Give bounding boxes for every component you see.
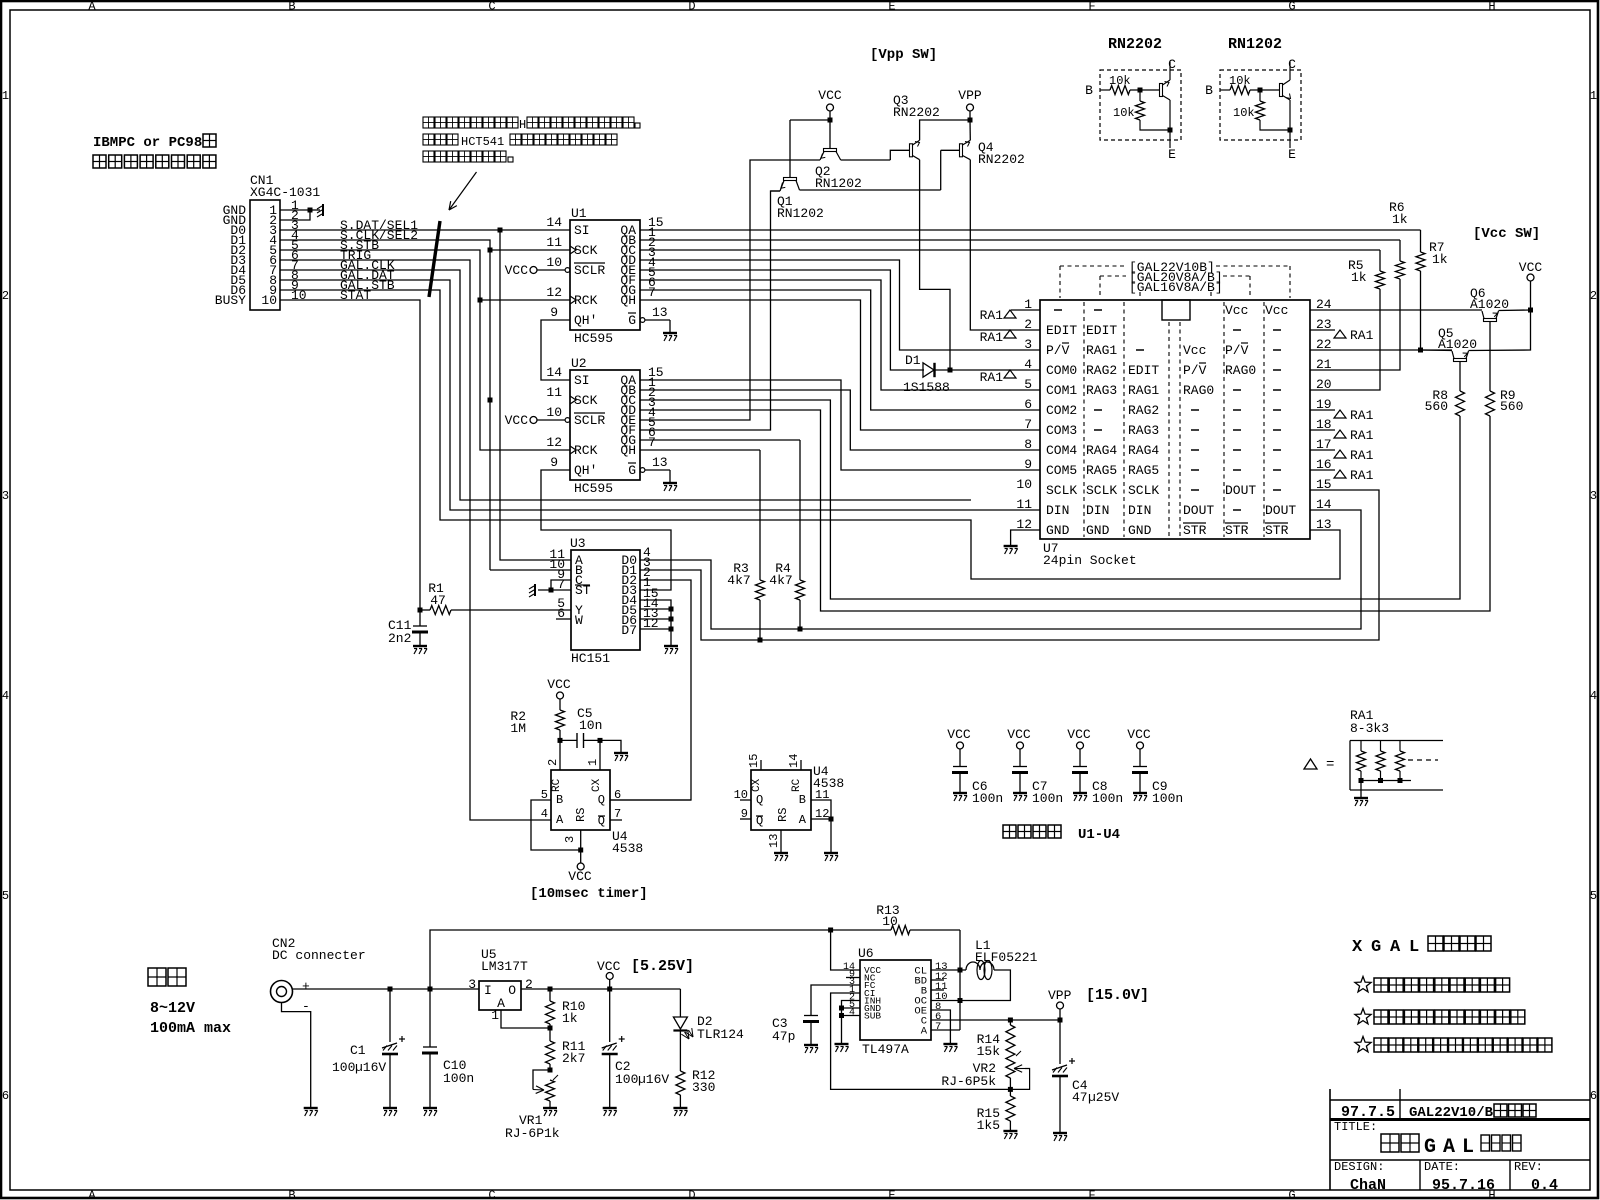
svg-text:P/V: P/V <box>1046 343 1070 358</box>
svg-text:Q: Q <box>756 793 763 807</box>
svg-text:2k7: 2k7 <box>562 1051 585 1066</box>
svg-text:95.7.16: 95.7.16 <box>1432 1177 1495 1194</box>
svg-text:H: H <box>1488 0 1495 14</box>
svg-text:HCT541: HCT541 <box>461 135 504 149</box>
svg-text:SUB: SUB <box>864 1011 881 1022</box>
svg-text:RCK: RCK <box>574 443 598 458</box>
svg-text:DOUT: DOUT <box>1225 483 1256 498</box>
svg-text:47: 47 <box>1072 1090 1088 1105</box>
wire STAT row <box>280 300 420 610</box>
svg-text:1k5: 1k5 <box>977 1118 1000 1133</box>
wire U2 QA to U7 pin9 <box>640 380 1040 470</box>
svg-text:14: 14 <box>546 365 562 380</box>
svg-text:A: A <box>556 813 564 827</box>
svg-text:EDIT: EDIT <box>1046 323 1077 338</box>
svg-text:2: 2 <box>2 289 9 303</box>
svg-text:9: 9 <box>550 455 558 470</box>
U6 BD stub <box>931 979 944 981</box>
svg-text:C: C <box>488 1189 495 1200</box>
svg-text:1: 1 <box>491 1008 499 1023</box>
U4a Qbar stub <box>610 819 622 821</box>
svg-text:3: 3 <box>468 977 476 992</box>
svg-text:560: 560 <box>1500 399 1523 414</box>
svg-text:15: 15 <box>1316 477 1332 492</box>
svg-text:SCLR: SCLR <box>574 263 605 278</box>
one-shot U4b 4538 (unused) <box>751 770 811 830</box>
svg-text:U2: U2 <box>571 356 587 371</box>
svg-text:560: 560 <box>1425 399 1448 414</box>
svg-text:RC: RC <box>791 778 803 792</box>
svg-text:+: + <box>302 979 310 994</box>
svg-text:A: A <box>88 0 96 14</box>
svg-text:A: A <box>88 1189 96 1200</box>
svg-text:EDIT: EDIT <box>1086 323 1117 338</box>
svg-text:DATE:: DATE: <box>1424 1160 1460 1174</box>
svg-text:B: B <box>1205 83 1213 98</box>
svg-text:SCLR: SCLR <box>574 413 605 428</box>
svg-text:[GAL16V8A/B]: [GAL16V8A/B] <box>1129 280 1223 295</box>
svg-text:µ25V: µ25V <box>1088 1090 1119 1105</box>
wire U1 QD to U7 pin3 <box>640 260 1040 350</box>
main 8-12V rail <box>293 988 480 990</box>
svg-text:4: 4 <box>1590 689 1597 703</box>
svg-text:COM2: COM2 <box>1046 403 1077 418</box>
U3 D2 to U4 Q <box>610 580 691 800</box>
U7 pin17 RA1 <box>1310 449 1335 451</box>
svg-text:G: G <box>628 463 636 478</box>
U6 FC to C3 <box>811 985 860 1015</box>
svg-text:7: 7 <box>648 435 656 450</box>
svg-text:P/V: P/V <box>1183 363 1207 378</box>
svg-text:DESIGN:: DESIGN: <box>1334 1160 1384 1174</box>
svg-text:7: 7 <box>648 285 656 300</box>
svg-text:G: G <box>1288 0 1295 14</box>
svg-text:RS: RS <box>574 808 588 822</box>
U6 B stub <box>931 989 944 991</box>
svg-text:VCC: VCC <box>568 869 592 884</box>
svg-text:RAG1: RAG1 <box>1128 383 1159 398</box>
svg-text:EDIT: EDIT <box>1128 363 1159 378</box>
U3 W stub <box>556 618 571 620</box>
svg-text:CX: CX <box>591 778 603 792</box>
CN2 minus to ground <box>282 1003 311 1108</box>
svg-text:VCC: VCC <box>547 677 571 692</box>
svg-text:X: X <box>1352 938 1363 957</box>
transistor <box>1160 84 1163 97</box>
svg-text:14: 14 <box>1316 497 1332 512</box>
svg-text:O: O <box>508 983 516 998</box>
svg-text:RN1202: RN1202 <box>815 176 862 191</box>
label GAL16V8A/B <box>1139 292 1141 298</box>
svg-text:4538: 4538 <box>612 841 643 856</box>
wire TRIG row <box>280 260 551 820</box>
svg-text:RAG0: RAG0 <box>1225 363 1256 378</box>
wire U2 QC to R8 row <box>640 400 1460 599</box>
svg-text:COM4: COM4 <box>1046 443 1077 458</box>
svg-text:B: B <box>799 793 806 807</box>
wire U2 QG through R4 <box>640 439 800 441</box>
svg-text:ChaN: ChaN <box>1350 1177 1386 1194</box>
svg-text:RA1: RA1 <box>980 370 1004 385</box>
svg-text:XG4C-1031: XG4C-1031 <box>250 185 320 200</box>
svg-text:5: 5 <box>1024 377 1032 392</box>
wire U1 QC to R5 <box>640 249 1380 251</box>
svg-text:4: 4 <box>1024 357 1032 372</box>
wire S.CLK row <box>280 240 490 570</box>
multiplexer U3 HC151 <box>571 550 640 650</box>
wire GAL.DAT row <box>280 280 1040 510</box>
U7 pin23 RA1 <box>1310 329 1335 331</box>
label GAL20V8A/B dashed box <box>1100 275 1126 277</box>
wire GAL.STB row <box>280 290 1340 579</box>
U7 pin20 to R5 <box>1310 289 1380 390</box>
svg-text:DOUT: DOUT <box>1265 503 1296 518</box>
svg-text:COM3: COM3 <box>1046 423 1077 438</box>
svg-text:[Vcc SW]: [Vcc SW] <box>1473 226 1540 242</box>
transistor <box>1280 84 1283 97</box>
svg-text:6: 6 <box>2 1089 9 1103</box>
svg-text:9: 9 <box>1024 457 1032 472</box>
svg-text:4k7: 4k7 <box>727 573 750 588</box>
svg-text:E: E <box>1168 147 1176 162</box>
U6 pin14 VCC from R13 rail <box>831 930 860 970</box>
svg-text:µ16V: µ16V <box>638 1072 669 1087</box>
svg-text:G: G <box>1424 1136 1436 1159</box>
svg-text:F: F <box>1088 1189 1095 1200</box>
G enable pin to ground <box>640 318 645 323</box>
svg-text:5: 5 <box>2 889 9 903</box>
wire U2 QD to R9 row <box>640 410 1490 611</box>
U7 pin function table <box>1054 309 1062 311</box>
svg-text:SCLK: SCLK <box>1128 483 1159 498</box>
wire U1 QB to R6 <box>640 239 1400 241</box>
bullet 2 <box>1355 1009 1371 1024</box>
wire U1 QG to U7 pin6 <box>640 290 1040 410</box>
svg-text:VCC: VCC <box>505 413 529 428</box>
svg-text:10: 10 <box>1016 477 1032 492</box>
svg-text:2: 2 <box>1024 317 1032 332</box>
svg-text:D: D <box>688 1189 695 1200</box>
svg-text:RA1: RA1 <box>980 330 1004 345</box>
U4a Q output to U3 D2 <box>610 799 691 801</box>
svg-text:SCLK: SCLK <box>1046 483 1077 498</box>
svg-text:3: 3 <box>1590 489 1597 503</box>
svg-text:RAG5: RAG5 <box>1086 463 1117 478</box>
U3 Y from R1 <box>451 609 571 611</box>
svg-text:SI: SI <box>574 223 590 238</box>
svg-text:VCC: VCC <box>597 959 621 974</box>
svg-text:1S1588: 1S1588 <box>903 380 950 395</box>
U6 OE to ground <box>931 1010 950 1043</box>
svg-text:2n2: 2n2 <box>388 631 411 646</box>
svg-text:QH: QH <box>620 443 636 458</box>
wire U2 QH through R3 <box>640 449 760 451</box>
svg-text:COM1: COM1 <box>1046 383 1077 398</box>
annotation text HCT541 note <box>423 117 434 128</box>
svg-text:U1-U4: U1-U4 <box>1078 827 1120 843</box>
svg-text:RAG4: RAG4 <box>1086 443 1117 458</box>
Q6 collector to R9 <box>1489 322 1491 392</box>
U7 pin18 RA1 <box>1310 429 1335 431</box>
wire U2 QE to Q2 <box>640 160 820 420</box>
svg-text:RAG3: RAG3 <box>1128 423 1159 438</box>
svg-text:RAG1: RAG1 <box>1086 343 1117 358</box>
svg-text:6: 6 <box>1024 397 1032 412</box>
caption bypass caps U1-U4 <box>1003 825 1016 838</box>
U6 INH/GND/SUB to ground <box>842 1001 861 1044</box>
wire U2 QF to Q1 <box>640 191 780 430</box>
svg-text:10k: 10k <box>1113 106 1135 120</box>
svg-text:RA1: RA1 <box>1350 448 1374 463</box>
svg-text:RAG5: RAG5 <box>1128 463 1159 478</box>
svg-text:U1: U1 <box>571 206 587 221</box>
svg-text:D: D <box>688 0 695 14</box>
svg-text:B: B <box>288 1189 295 1200</box>
svg-text:GAL22V10/B: GAL22V10/B <box>1409 1105 1494 1121</box>
bus slash marker <box>429 221 440 297</box>
shift register U2 HC595 <box>570 370 640 480</box>
svg-text:RN2202: RN2202 <box>893 105 940 120</box>
svg-text:0.4: 0.4 <box>1531 1177 1558 1194</box>
svg-text:1k: 1k <box>1351 270 1367 285</box>
svg-text:TL497A: TL497A <box>862 1042 909 1057</box>
caption power supply <box>148 968 166 986</box>
svg-text:L: L <box>1462 1136 1474 1159</box>
svg-text:GND: GND <box>1128 523 1152 538</box>
svg-text:U6: U6 <box>858 946 874 961</box>
svg-text:DC connecter: DC connecter <box>272 948 366 963</box>
svg-text:RN2202: RN2202 <box>1108 36 1162 53</box>
svg-text:100n: 100n <box>1092 791 1123 806</box>
svg-text:B: B <box>556 793 563 807</box>
svg-text:5: 5 <box>1590 889 1597 903</box>
svg-text:µ16V: µ16V <box>355 1060 386 1075</box>
svg-text:RJ-6P1k: RJ-6P1k <box>505 1126 560 1141</box>
Q5 collector to R8 <box>1459 362 1461 392</box>
svg-text:14: 14 <box>546 215 562 230</box>
svg-text:L: L <box>1409 938 1419 957</box>
svg-text:W: W <box>575 613 583 628</box>
U1 QH' to U2 SI link <box>541 320 570 380</box>
U3 input wires <box>500 230 571 560</box>
svg-text:1: 1 <box>2 89 9 103</box>
svg-text:RS: RS <box>776 808 790 822</box>
svg-text:1k: 1k <box>562 1011 578 1026</box>
svg-text:COM0: COM0 <box>1046 363 1077 378</box>
svg-text:LM317T: LM317T <box>481 959 528 974</box>
wire U1 QA to R7 <box>640 229 1421 231</box>
svg-text:[10msec timer]: [10msec timer] <box>530 886 648 902</box>
RA1 element 2 <box>1380 741 1382 752</box>
svg-text:[5.25V]: [5.25V] <box>631 958 694 975</box>
svg-text:A1020: A1020 <box>1470 297 1509 312</box>
U3 D4-D7 to ground <box>640 600 671 645</box>
svg-text:RN1202: RN1202 <box>777 206 824 221</box>
svg-text:1: 1 <box>586 759 600 766</box>
shift register U1 HC595 <box>570 220 640 330</box>
svg-text:7: 7 <box>614 807 621 821</box>
svg-text:[Vpp SW]: [Vpp SW] <box>870 47 937 63</box>
svg-text:DIN: DIN <box>1046 503 1069 518</box>
svg-text:3: 3 <box>563 836 577 843</box>
svg-text:VPP: VPP <box>958 88 982 103</box>
U6 NC stub <box>846 977 860 979</box>
svg-text:QH': QH' <box>574 313 597 328</box>
Q4 collector to U7 pin2 <box>970 160 1040 330</box>
svg-text:RC: RC <box>551 778 563 792</box>
svg-text:9: 9 <box>550 305 558 320</box>
svg-text:8-3k3: 8-3k3 <box>1350 721 1389 736</box>
Q1 collector to Q4 base <box>800 189 941 191</box>
RA1 element 1 <box>1360 741 1362 752</box>
svg-text:97.7.5: 97.7.5 <box>1341 1104 1395 1121</box>
U7 pin22 row <box>1310 349 1452 351</box>
svg-text:A: A <box>921 1026 928 1038</box>
svg-text:6: 6 <box>1590 1089 1597 1103</box>
svg-text:GND: GND <box>1086 523 1110 538</box>
svg-text:11: 11 <box>546 235 562 250</box>
svg-text:A: A <box>799 813 807 827</box>
svg-text:RCK: RCK <box>574 293 598 308</box>
svg-text:C1: C1 <box>350 1043 366 1058</box>
wire U1 QE to D1 anode <box>640 270 924 370</box>
svg-text:P/V: P/V <box>1225 343 1249 358</box>
svg-text:VCC: VCC <box>1127 727 1151 742</box>
svg-text:13: 13 <box>652 305 668 320</box>
svg-text:RAG2: RAG2 <box>1128 403 1159 418</box>
svg-text:G: G <box>628 313 636 328</box>
svg-text:15: 15 <box>747 754 761 768</box>
U5 output rail <box>521 988 680 990</box>
svg-text:11: 11 <box>546 385 562 400</box>
svg-text:STR: STR <box>1225 523 1249 538</box>
svg-text:CX: CX <box>751 778 763 792</box>
wire S.DAT row <box>280 229 570 231</box>
svg-text:[15.0V]: [15.0V] <box>1086 987 1149 1004</box>
triangle legend <box>1304 759 1317 769</box>
svg-text:SI: SI <box>574 373 590 388</box>
svg-text:13: 13 <box>767 834 781 848</box>
svg-text:IBMPC or PC98: IBMPC or PC98 <box>93 135 202 151</box>
U2 QH' to U3 D3 link <box>541 470 671 590</box>
svg-text:D7: D7 <box>621 623 637 638</box>
svg-text:3: 3 <box>2 489 9 503</box>
svg-text:RAG4: RAG4 <box>1128 443 1159 458</box>
label GAL22V10B dashed box <box>1060 265 1126 267</box>
svg-text:VCC: VCC <box>947 727 971 742</box>
U3 D0 to pin14 row <box>640 510 1361 629</box>
svg-text:BUSY: BUSY <box>215 293 246 308</box>
svg-text:E: E <box>888 0 895 14</box>
svg-text:C: C <box>1288 57 1296 72</box>
svg-text:14: 14 <box>787 754 801 768</box>
svg-text:H: H <box>519 118 526 132</box>
svg-text:U3: U3 <box>570 536 586 551</box>
RA1 element 3 <box>1399 741 1401 752</box>
svg-text:D1: D1 <box>905 353 921 368</box>
svg-text:Q: Q <box>598 793 605 807</box>
U6 A row <box>931 1029 960 1031</box>
title block <box>1329 1089 1331 1190</box>
svg-text:13: 13 <box>652 455 668 470</box>
svg-text:RA1: RA1 <box>1350 428 1374 443</box>
svg-text:C: C <box>488 0 495 14</box>
svg-text:E: E <box>1288 147 1296 162</box>
U7 pin24 row to VCC <box>1310 309 1482 311</box>
svg-text:RJ-6P5k: RJ-6P5k <box>941 1074 996 1089</box>
svg-text:RAG0: RAG0 <box>1183 383 1214 398</box>
svg-text:STR: STR <box>1265 523 1289 538</box>
svg-text:2: 2 <box>525 977 533 992</box>
svg-text:VCC: VCC <box>818 88 842 103</box>
svg-text:10: 10 <box>882 914 898 929</box>
svg-text:HC595: HC595 <box>574 331 613 346</box>
svg-text:100n: 100n <box>1032 791 1063 806</box>
svg-text:DIN: DIN <box>1128 503 1151 518</box>
svg-text:330: 330 <box>692 1080 715 1095</box>
U3 D1 to pin15 row <box>640 490 1379 640</box>
svg-text:SCLK: SCLK <box>1086 483 1117 498</box>
U3 C/ST tie to low <box>551 580 571 590</box>
U4b stubs and grounds <box>760 760 762 770</box>
wire U1 QH to U7 pin7 <box>640 300 1040 430</box>
svg-text:4: 4 <box>849 1008 855 1019</box>
svg-text:7: 7 <box>1024 417 1032 432</box>
G enable pin to ground <box>640 468 645 473</box>
svg-text:RAG3: RAG3 <box>1086 383 1117 398</box>
svg-text:1k: 1k <box>1392 212 1408 227</box>
svg-text:100n: 100n <box>1152 791 1183 806</box>
svg-text:RAG2: RAG2 <box>1086 363 1117 378</box>
one-shot U4a 4538 <box>559 740 561 770</box>
svg-text:QH: QH <box>620 293 636 308</box>
svg-text:=: = <box>1326 757 1334 773</box>
bullet 1 <box>1355 977 1371 992</box>
svg-text:SCK: SCK <box>574 243 598 258</box>
svg-text:7: 7 <box>935 1021 941 1033</box>
socket U7 24pin <box>1040 300 1310 539</box>
svg-text:TLR124: TLR124 <box>697 1027 744 1042</box>
svg-text:C: C <box>1168 57 1176 72</box>
svg-text:24pin Socket: 24pin Socket <box>1043 553 1137 568</box>
svg-text:COM5: COM5 <box>1046 463 1077 478</box>
svg-text:100mA max: 100mA max <box>150 1020 231 1037</box>
U7 pin16 RA1 <box>1310 469 1335 471</box>
svg-text:10: 10 <box>546 255 562 270</box>
svg-text:Vcc: Vcc <box>1265 303 1288 318</box>
svg-text:RA1: RA1 <box>1350 408 1374 423</box>
svg-text:REV:: REV: <box>1514 1160 1543 1174</box>
svg-text:4k7: 4k7 <box>769 573 792 588</box>
svg-text:2: 2 <box>546 759 560 766</box>
svg-text:TITLE:: TITLE: <box>1334 1120 1377 1134</box>
svg-text:VCC: VCC <box>1007 727 1031 742</box>
CN1 pin1/2 ground wires <box>280 209 310 211</box>
svg-text:100n: 100n <box>972 791 1003 806</box>
svg-text:100n: 100n <box>443 1071 474 1086</box>
svg-text:F: F <box>1088 0 1095 14</box>
svg-text:B: B <box>1085 83 1093 98</box>
svg-text:15k: 15k <box>977 1044 1001 1059</box>
svg-text:G: G <box>1288 1189 1295 1200</box>
svg-text:RN1202: RN1202 <box>1228 36 1282 53</box>
U7 pin4 RA1 <box>1004 370 1016 378</box>
svg-text:STR: STR <box>1183 523 1207 538</box>
svg-text:B: B <box>288 0 295 14</box>
svg-text:100: 100 <box>615 1072 638 1087</box>
svg-text:1k: 1k <box>1432 252 1448 267</box>
U7 pin2 RA1 <box>1004 330 1016 338</box>
